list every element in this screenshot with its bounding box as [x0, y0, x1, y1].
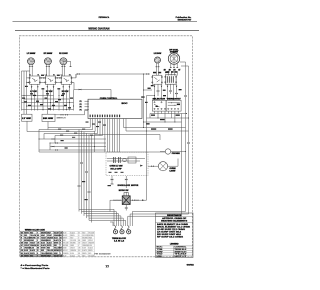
svg-text:VIOLET: VIOLET	[41, 237, 46, 239]
svg-text:RED: RED	[70, 237, 73, 239]
wires between left switches	[27, 74, 77, 90]
svg-text:WHITE: WHITE	[54, 243, 59, 245]
wire RR switch outputs	[62, 84, 70, 89]
svg-text:RED: RED	[41, 250, 44, 252]
resistance table body	[157, 223, 190, 239]
svg-text:V: V	[21, 248, 22, 250]
svg-text:BLUE: BLUE	[47, 240, 51, 242]
wire RF dual to switch	[169, 71, 178, 75]
svg-text:BROWN: BROWN	[54, 250, 59, 252]
door switch	[42, 114, 66, 121]
svg-text:09/02: 09/02	[187, 264, 194, 266]
svg-text:OVEN LT SW: OVEN LT SW	[110, 165, 124, 167]
svg-text:HEATING ELEMENTS: HEATING ELEMENTS	[161, 220, 188, 223]
svg-text:BU: BU	[21, 253, 23, 255]
svg-text:BR: BR	[60, 248, 62, 250]
wire LR to switch	[156, 70, 158, 76]
svg-text:VIOLET: VIOLET	[54, 255, 59, 257]
oven thermostat label	[167, 98, 182, 101]
svg-text:YELLOW: YELLOW	[47, 250, 54, 252]
svg-text:YELLOW: YELLOW	[70, 240, 76, 242]
wire RR side tap	[66, 61, 71, 67]
surface element LF	[28, 58, 35, 65]
svg-text:BLUE: BLUE	[63, 255, 67, 257]
wire motor right	[130, 199, 146, 201]
oven control board label	[100, 98, 118, 100]
svg-text:V: V	[37, 240, 38, 242]
svg-text:BLUE: BLUE	[41, 243, 45, 245]
EOC wire number labels	[86, 122, 107, 128]
svg-text:RF 2600W: RF 2600W	[44, 53, 53, 55]
svg-text:WHITE: WHITE	[24, 232, 29, 234]
svg-text:LF-RF SURF 22.2 OHMS: LF-RF SURF 22.2 OHMS	[157, 229, 185, 231]
wire mesh drops	[24, 111, 47, 115]
oven light switch	[22, 114, 33, 121]
svg-text:VIOLET: VIOLET	[24, 245, 29, 247]
surface element RF label	[44, 53, 53, 55]
svg-text:OR: OR	[78, 248, 80, 250]
wire harness left fan	[27, 128, 102, 153]
svg-text:LF SW: LF SW	[30, 91, 37, 93]
svg-text:RED: RED	[47, 248, 50, 250]
EOC left pins	[80, 101, 89, 112]
RF dual terminal labels	[164, 70, 181, 74]
diagram border frame	[19, 36, 192, 257]
surface element LR label	[154, 53, 162, 55]
svg-text:RED: RED	[82, 232, 85, 234]
svg-text:CONTROL: CONTROL	[174, 247, 186, 249]
wire right bus L1	[185, 62, 187, 212]
svg-text:LEGEND: LEGEND	[170, 244, 179, 246]
mesh labels	[22, 93, 73, 109]
svg-text:YELLOW: YELLOW	[30, 235, 37, 237]
wire top bus to switches	[180, 62, 189, 66]
date code	[187, 264, 194, 266]
svg-text:LR SURF UNIT 38.4: LR SURF UNIT 38.4	[157, 232, 181, 234]
probe jack	[160, 149, 186, 155]
svg-text:WHITE: WHITE	[82, 253, 86, 255]
svg-text:RR SURF UNIT 48.0: RR SURF UNIT 48.0	[157, 234, 181, 236]
svg-text:BROWN: BROWN	[88, 235, 93, 237]
left switch extra labels	[25, 75, 60, 90]
svg-text:LR 1500W: LR 1500W	[154, 53, 162, 55]
svg-text:VIOLET: VIOLET	[30, 243, 35, 245]
wire RR to switch	[62, 68, 64, 76]
svg-text:LF 2600W: LF 2600W	[27, 53, 36, 55]
svg-text:WHITE: WHITE	[47, 245, 52, 247]
svg-text:Y: Y	[21, 240, 22, 242]
svg-text:BLUE: BLUE	[82, 248, 86, 250]
wire RF switch outputs	[47, 84, 55, 89]
console labels	[109, 165, 144, 173]
svg-text:GY: GY	[21, 245, 23, 247]
svg-text:RR SW: RR SW	[62, 91, 69, 93]
svg-text:L1 N L2: L1 N L2	[114, 241, 124, 243]
color code table text	[21, 231, 95, 257]
infinite switch LF terminals labels	[29, 74, 39, 76]
wire right bus L2	[188, 66, 190, 214]
svg-text:HOT LT: HOT LT	[174, 256, 186, 258]
publication number text	[176, 16, 193, 21]
infinite switch RR terminals labels	[61, 74, 71, 76]
wire LF to switch	[30, 68, 32, 76]
surface element LF label	[27, 53, 36, 55]
wire RF to switch	[47, 68, 49, 76]
console dashed enclosure	[106, 152, 148, 176]
svg-text:WIRING DIAGRAM: WIRING DIAGRAM	[88, 26, 110, 30]
svg-text:BROWN: BROWN	[70, 243, 75, 245]
svg-text:RED: RED	[30, 232, 33, 234]
wire mid verticals	[143, 74, 147, 201]
svg-text:BK: BK	[60, 237, 62, 239]
title rule	[15, 29, 199, 31]
svg-text:VIOLET: VIOLET	[63, 250, 68, 252]
svg-text:SWITCH: SWITCH	[57, 118, 66, 120]
svg-text:FEF366ACA: FEF366ACA	[99, 16, 110, 19]
console innards	[107, 157, 145, 163]
svg-text:BROIL ELEMENT 16.1 OHMS: BROIL ELEMENT 16.1 OHMS	[157, 227, 190, 229]
color code table	[21, 231, 95, 257]
svg-text:Y: Y	[37, 232, 38, 234]
svg-text:* = Non-Illustrated Parts: * = Non-Illustrated Parts	[21, 267, 51, 270]
wire labels below row B	[146, 115, 180, 130]
wire element RF leads	[46, 64, 50, 67]
svg-text:5995367787: 5995367787	[178, 20, 193, 22]
wire to EOC top	[74, 89, 112, 100]
door lock motor label	[118, 185, 139, 192]
svg-text:BLUE: BLUE	[88, 245, 92, 247]
svg-text:BLUE: BLUE	[54, 237, 58, 239]
svg-text:LIGHT: LIGHT	[170, 171, 176, 173]
resistance table header	[161, 214, 188, 223]
wires EOC drops	[90, 119, 119, 153]
svg-text:P3: P3	[80, 107, 82, 109]
svg-text:WHITE: WHITE	[88, 250, 92, 252]
svg-text:WHITE: WHITE	[30, 253, 35, 255]
svg-text:BLUE: BLUE	[24, 250, 28, 252]
wire mid runs	[39, 138, 107, 151]
resistance table grid	[156, 246, 194, 258]
infinite switch LF	[29, 76, 41, 84]
svg-text:BR: BR	[78, 240, 80, 242]
wires console box exits	[108, 176, 128, 187]
svg-text:YELLOW: YELLOW	[88, 255, 94, 257]
resistance table legend	[170, 244, 179, 246]
surface element RR	[60, 58, 67, 65]
svg-text:BROWN: BROWN	[63, 245, 68, 247]
svg-text:DR SW: DR SW	[43, 118, 54, 120]
svg-text:SWITCH: SWITCH	[174, 251, 186, 253]
svg-text:BU: BU	[60, 235, 62, 237]
model number text	[99, 16, 110, 19]
wires row A to row B	[143, 84, 178, 100]
wire feeders right	[110, 212, 189, 227]
svg-text:BK: BK	[21, 232, 23, 234]
wire door switch to EOC	[55, 111, 88, 116]
wire LF switch outputs	[31, 84, 39, 89]
svg-text:OVEN CONTROL: OVEN CONTROL	[100, 98, 118, 100]
svg-text:HSL: HSL	[157, 256, 163, 258]
svg-text:BU: BU	[78, 250, 80, 252]
harness labels	[58, 129, 93, 138]
legend fast moving	[21, 264, 50, 267]
surface element RR label	[59, 53, 68, 55]
terminal block label	[112, 238, 127, 243]
EOC terminal strip	[90, 115, 121, 118]
svg-text:BLUE: BLUE	[70, 253, 74, 255]
infinite switch RF	[45, 76, 57, 84]
svg-text:EOC: EOC	[122, 103, 129, 105]
svg-text:R: R	[37, 253, 38, 255]
svg-text:VIOLET: VIOLET	[82, 243, 87, 245]
svg-text:V: V	[78, 245, 79, 247]
svg-text:R: R	[21, 237, 22, 239]
wire motor top/bottom	[125, 176, 128, 211]
svg-text:BROWN: BROWN	[24, 240, 29, 242]
svg-text:OR: OR	[60, 255, 62, 257]
title WIRING DIAGRAM	[88, 26, 110, 30]
svg-text:Y: Y	[78, 237, 79, 239]
switch RF dual terminal labels	[166, 71, 177, 73]
wires below row B	[143, 111, 189, 216]
header rule	[13, 21, 198, 23]
wire labels right rows	[141, 85, 181, 103]
svg-text:RED: RED	[24, 235, 27, 237]
oven thermostat switch	[166, 100, 181, 111]
wire element RR leads	[61, 64, 65, 67]
svg-text:WHITE: WHITE	[70, 235, 74, 237]
svg-text:YELLOW: YELLOW	[63, 243, 69, 245]
wire feeders left	[79, 209, 126, 226]
svg-text:P1: P1	[80, 101, 82, 103]
wire EOC to right bus	[95, 119, 189, 141]
svg-text:GY: GY	[78, 243, 80, 245]
label RR switch	[62, 91, 69, 93]
svg-text:BK: BK	[37, 248, 39, 250]
wire vertical bundle	[78, 130, 95, 223]
svg-text:BROWN: BROWN	[82, 237, 87, 239]
svg-text:BLUE: BLUE	[63, 232, 67, 234]
svg-text:LT SW: LT SW	[22, 118, 31, 120]
infinite switch LR	[152, 75, 163, 84]
wire from switches down	[27, 121, 48, 131]
svg-text:BLUE: BLUE	[30, 248, 34, 250]
svg-text:Y: Y	[60, 245, 61, 247]
switch LR terminal labels	[153, 72, 161, 74]
surface element RF dual label	[169, 48, 179, 53]
svg-text:RED: RED	[63, 240, 66, 242]
svg-text:P/N 316048329: P/N 316048329	[94, 253, 110, 255]
right bus connector marks	[184, 95, 190, 144]
surface element LR	[155, 57, 161, 63]
oven selector switch	[152, 100, 166, 111]
svg-text:TERM BLK: TERM BLK	[174, 249, 187, 251]
svg-text:YELLOW: YELLOW	[88, 232, 94, 234]
svg-text:PROBE: PROBE	[172, 153, 180, 155]
svg-text:VIOLET: VIOLET	[70, 248, 75, 250]
wire probe run	[39, 151, 165, 153]
svg-text:OR: OR	[60, 232, 62, 234]
svg-text:RF SURF 19.2 OHMS: RF SURF 19.2 OHMS	[157, 237, 183, 239]
svg-text:OR: OR	[21, 250, 23, 252]
svg-text:RED: RED	[54, 245, 57, 247]
wire RF dual leads	[170, 64, 178, 68]
svg-text:# = Fast-moving Parts: # = Fast-moving Parts	[21, 264, 50, 267]
svg-text:BROWN: BROWN	[41, 255, 46, 257]
svg-text:WHITE: WHITE	[41, 248, 46, 250]
svg-text:DOOR LOCK: DOOR LOCK	[118, 185, 131, 187]
svg-text:BROWN: BROWN	[47, 253, 52, 255]
svg-text:VIOLET: VIOLET	[54, 232, 59, 234]
svg-text:R: R	[60, 243, 61, 245]
svg-text:BK: BK	[21, 255, 23, 257]
label LF switch	[30, 91, 37, 93]
svg-text:P2: P2	[80, 104, 82, 106]
infinite switch RF dual	[165, 75, 177, 84]
terminal block coils	[113, 226, 130, 234]
svg-text:BR: BR	[37, 235, 39, 237]
surface element RF	[44, 58, 51, 65]
svg-text:WHITE: WHITE	[63, 237, 67, 239]
infinite switch RF terminals labels	[45, 74, 55, 76]
svg-text:RED: RED	[88, 253, 91, 255]
svg-text:RESISTANCE: RESISTANCE	[167, 214, 182, 217]
label RF switch	[46, 91, 53, 93]
svg-text:BU: BU	[37, 245, 39, 247]
color code table title	[25, 229, 46, 231]
wire motor left	[110, 199, 122, 211]
svg-text:OR: OR	[37, 243, 39, 245]
svg-text:MICRO SW: MICRO SW	[119, 190, 129, 192]
svg-text:RED: RED	[30, 255, 33, 257]
svg-text:HI LO OFF: HI LO OFF	[111, 168, 122, 170]
door lock motor	[122, 193, 130, 205]
oven control board EOC	[88, 99, 142, 118]
legend non illustrated	[21, 267, 51, 270]
wire LR leads	[156, 63, 160, 70]
page number	[106, 264, 110, 268]
svg-text:RF SW: RF SW	[46, 91, 53, 93]
svg-text:GY: GY	[37, 237, 39, 239]
svg-text:V: V	[60, 253, 61, 255]
wire L1 bus run	[76, 73, 150, 77]
svg-text:RR 1200W: RR 1200W	[59, 53, 68, 55]
svg-text:BROWN: BROWN	[41, 232, 46, 234]
svg-text:Y: Y	[37, 255, 38, 257]
svg-text:CT: CT	[178, 70, 180, 72]
svg-text:MOTOR: MOTOR	[131, 185, 139, 187]
svg-text:VIOLET: VIOLET	[88, 240, 93, 242]
oven selector switch label	[153, 99, 167, 101]
svg-text:R: R	[78, 235, 79, 237]
wire mesh console	[22, 71, 75, 111]
svg-text:RED: RED	[82, 255, 85, 257]
svg-text:BK: BK	[78, 253, 80, 255]
wire element LF leads	[29, 64, 33, 67]
svg-text:BR: BR	[21, 243, 23, 245]
svg-text:WHITE: WHITE	[24, 255, 29, 257]
oven lamp	[148, 159, 178, 173]
svg-text:TERM BLOCK: TERM BLOCK	[112, 238, 127, 240]
svg-text:BROWN: BROWN	[30, 237, 35, 239]
resistance table	[156, 213, 194, 258]
part number	[94, 253, 110, 255]
svg-text:GY: GY	[60, 250, 62, 252]
surface element RF dual	[168, 53, 179, 64]
infinite switch RR	[61, 76, 73, 84]
svg-text:VIOLET: VIOLET	[47, 235, 52, 237]
